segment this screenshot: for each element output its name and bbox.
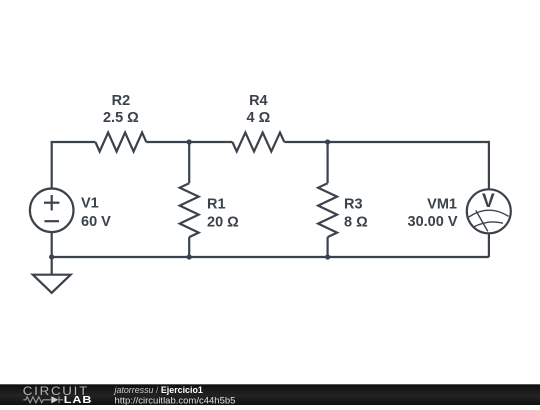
- svg-text:30.00 V: 30.00 V: [408, 214, 458, 230]
- svg-text:20 Ω: 20 Ω: [207, 214, 239, 230]
- svg-text:2.5 Ω: 2.5 Ω: [103, 110, 139, 126]
- svg-text:VM1: VM1: [427, 197, 457, 213]
- svg-text:8 Ω: 8 Ω: [344, 214, 368, 230]
- svg-text:http://circuitlab.com/c44h5b5: http://circuitlab.com/c44h5b5: [115, 395, 236, 405]
- svg-text:R2: R2: [112, 93, 131, 109]
- svg-text:R3: R3: [344, 196, 363, 212]
- svg-text:R1: R1: [207, 196, 226, 212]
- svg-text:4 Ω: 4 Ω: [246, 110, 270, 126]
- svg-text:LAB: LAB: [64, 395, 93, 405]
- svg-text:jatorressu / Ejercicio1: jatorressu / Ejercicio1: [114, 385, 203, 395]
- svg-text:V: V: [482, 191, 495, 212]
- svg-text:60 V: 60 V: [81, 214, 111, 230]
- svg-text:V1: V1: [81, 196, 99, 212]
- svg-text:R4: R4: [249, 93, 268, 109]
